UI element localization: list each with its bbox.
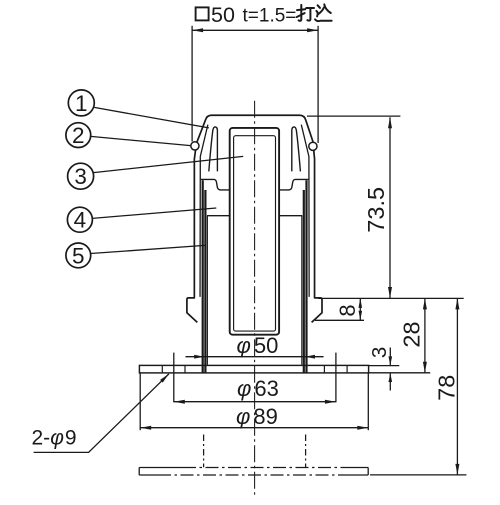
svg-text:t=1.5=: t=1.5=	[243, 6, 297, 27]
phantom line: pipe position left	[203, 435, 205, 468]
kanji KOMI (driven-in) of top note	[315, 4, 332, 21]
flange bolt hole edge	[161, 365, 163, 373]
flange bolt hole edge	[346, 365, 348, 373]
svg-text:2: 2	[72, 123, 85, 148]
svg-text:2-φ9: 2-φ9	[32, 427, 77, 450]
part line: skirt inner wall left	[200, 125, 208, 297]
svg-text:φ89: φ89	[236, 404, 278, 429]
dimension line square-50	[192, 29, 318, 31]
svg-text:73.5: 73.5	[363, 187, 389, 233]
part: anchor plate right end	[367, 468, 369, 476]
flange bolt hole edge	[184, 365, 186, 373]
dimension line phi-89	[140, 427, 368, 429]
part: inner pipe inner wall (item 3)	[234, 136, 276, 331]
svg-text:50: 50	[211, 3, 235, 27]
part: anchor plate bottom edge	[139, 474, 368, 476]
part line: socket tube wall right	[303, 190, 305, 373]
phantom line: pipe position right	[305, 435, 307, 468]
part line: socket tube wall right	[305, 180, 307, 373]
leader line for balloon 1	[94, 107, 209, 128]
svg-text:φ50: φ50	[237, 333, 279, 358]
extension line right of square-50	[317, 26, 319, 143]
balloon number 4	[67, 207, 92, 232]
extension line top of 3	[369, 365, 400, 367]
svg-text:3: 3	[74, 164, 87, 189]
leader line 2-phi9	[34, 374, 169, 453]
balloon number 2	[66, 123, 91, 148]
extension line bottom of 8	[315, 319, 364, 321]
extension line right of phi-63	[335, 353, 337, 403]
part line: cap rib right	[292, 127, 301, 171]
svg-text:4: 4	[74, 208, 87, 233]
extension line bottom of 28 / of 3	[369, 372, 431, 374]
balloon number 3	[68, 163, 94, 189]
flange bolt hole edge	[323, 365, 325, 373]
rivet right (item 2)	[309, 142, 317, 150]
dimension line phi-50	[186, 356, 324, 358]
leader line for balloon 4	[92, 208, 216, 218]
rivet left (item 2)	[191, 142, 199, 150]
part line: liner wall right (item 5)	[301, 216, 303, 365]
part: anchor plate top edge	[139, 467, 368, 469]
svg-text:8: 8	[335, 304, 360, 316]
label square symbol of top note	[196, 7, 209, 20]
svg-text:5: 5	[72, 243, 85, 268]
extension line bottom of 78	[370, 474, 466, 476]
balloon number 1	[68, 90, 94, 116]
centerline	[254, 101, 256, 496]
extension line bottom of 73.5 / top of 28 and 78	[318, 297, 464, 299]
part line: socket tube wall left	[204, 190, 206, 373]
balloon number 5	[66, 243, 91, 268]
kanji DA (strike) of top note	[297, 5, 314, 21]
part line: socket lip step left (item 4)	[201, 179, 230, 190]
part line: skirt inner wall right	[301, 125, 309, 297]
dimension line 73.5	[389, 117, 391, 298]
extension line left of square-50	[191, 26, 193, 142]
part line: cap rib left	[209, 127, 218, 171]
dimension line phi-63	[174, 401, 336, 403]
part line: liner top edge left	[207, 215, 231, 217]
svg-text:78: 78	[433, 375, 459, 401]
part: inner pipe outer wall (item 3)	[230, 128, 279, 335]
dimension line 78	[456, 298, 458, 475]
leader line for balloon 2	[91, 136, 191, 145]
part: base flange plate	[139, 365, 368, 373]
part line: liner top edge right	[279, 215, 303, 217]
leader line for balloon 5	[91, 245, 205, 253]
part line: socket tube wall left	[202, 180, 204, 373]
dimension line 28	[424, 298, 426, 372]
part outline: cap top and outer skirt (item 1)	[187, 115, 322, 322]
extension line left of phi-89	[139, 373, 141, 430]
svg-text:1: 1	[75, 91, 88, 116]
svg-text:φ63: φ63	[237, 376, 279, 401]
part line: liner wall left (item 5)	[206, 216, 208, 365]
svg-text:28: 28	[398, 321, 424, 347]
extension line top of 73.5	[307, 115, 400, 117]
extension line left of phi-63	[173, 353, 175, 403]
svg-text:3: 3	[368, 347, 391, 358]
dimension line 8	[359, 298, 361, 320]
dimension line 3	[389, 348, 391, 366]
part line: socket lip step right (item 4)	[279, 179, 308, 190]
leader line for balloon 3	[94, 156, 244, 172]
part: anchor plate left end	[138, 468, 140, 476]
extension line right of phi-89	[367, 373, 369, 430]
